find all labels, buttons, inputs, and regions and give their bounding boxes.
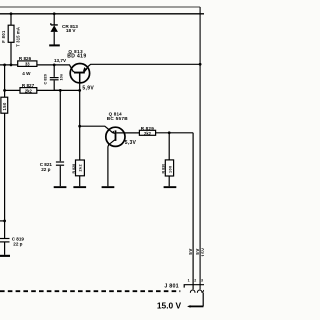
svg-text:18 V: 18 V: [66, 28, 77, 33]
svg-text:R 827: R 827: [22, 83, 35, 88]
svg-text:15.0 V: 15.0 V: [157, 301, 182, 311]
svg-text:2k2: 2k2: [25, 88, 33, 93]
svg-text:C 819: C 819: [12, 236, 25, 241]
svg-text:10n: 10n: [59, 73, 64, 80]
svg-text:R 828: R 828: [72, 164, 76, 174]
svg-text:1: 1: [188, 278, 190, 282]
svg-text:R 826: R 826: [19, 56, 32, 61]
svg-text:2k2: 2k2: [144, 131, 152, 136]
svg-text:4 W: 4 W: [22, 71, 31, 76]
svg-text:5V: 5V: [195, 248, 200, 255]
svg-text:BC 557B: BC 557B: [107, 116, 128, 121]
svg-text:100: 100: [168, 165, 172, 173]
svg-text:F 801: F 801: [1, 30, 6, 43]
svg-text:13,7V: 13,7V: [54, 58, 67, 63]
svg-text:33: 33: [25, 62, 30, 67]
svg-text:5,9V: 5,9V: [82, 85, 94, 91]
svg-text:5,3V: 5,3V: [125, 140, 137, 146]
svg-text:J 801: J 801: [164, 284, 179, 290]
svg-text:2k2: 2k2: [79, 164, 83, 172]
svg-text:T 315 mA: T 315 mA: [15, 27, 20, 47]
svg-text:3: 3: [201, 278, 203, 282]
svg-text:2: 2: [194, 278, 196, 282]
svg-text:R 829: R 829: [141, 126, 155, 131]
svg-text:15V: 15V: [201, 247, 205, 256]
svg-text:BD 419: BD 419: [67, 54, 86, 60]
svg-text:22 p: 22 p: [13, 242, 22, 247]
svg-text:22 p: 22 p: [41, 167, 50, 172]
svg-text:150: 150: [2, 102, 7, 110]
svg-text:R 830: R 830: [162, 164, 166, 174]
svg-text:5V: 5V: [188, 248, 193, 255]
svg-text:C 820: C 820: [42, 74, 47, 84]
